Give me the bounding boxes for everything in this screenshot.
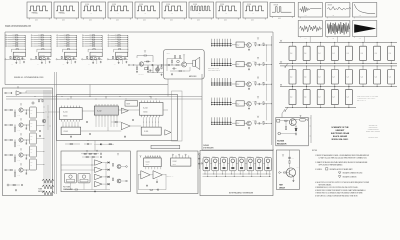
svg-text:C-4: C-4: [332, 97, 334, 99]
waveform scope box W3: [81, 2, 106, 18]
scope box W8 legs: [217, 18, 219, 20]
IC divider U301: [64, 52, 76, 57]
IC gate U120: [236, 42, 244, 47]
decoder IC104 to IC105 wire bundle: [143, 117, 145, 127]
IC U102 shaded: [94, 106, 118, 115]
svg-text:C-4: C-4: [318, 53, 320, 55]
fm resistor row R201-R203: [84, 153, 86, 154]
svg-text:C-4: C-4: [332, 53, 334, 55]
tone decoder ground 1: [14, 114, 16, 117]
divider unit 4 left terminal 4: [83, 41, 84, 43]
svg-text:4-9: 4-9: [252, 13, 254, 15]
transistor Q21 buffer: [156, 68, 160, 72]
scope box W1 legs: [28, 18, 30, 20]
decoder bus junction dots: [34, 95, 37, 98]
svg-text:C-NAT: C-NAT: [247, 155, 250, 158]
divider unit 4 ground 2: [100, 61, 102, 62]
note module 4 lead wires: [230, 171, 232, 174]
note module 5 chain wire: [245, 162, 247, 164]
amplifier ground: [171, 73, 173, 74]
tone decoder block rect 1: [30, 107, 37, 118]
tone decoder junction dots 4: [14, 154, 17, 157]
wire from amp box down: [167, 79, 169, 97]
key module row 2 col 6 bottom wire: [362, 84, 364, 86]
amplifier extra wire grid: [167, 58, 182, 60]
oscillator ground 1: [136, 71, 138, 72]
svg-text:VOICE: VOICE: [247, 4, 251, 6]
note module 5: [238, 158, 245, 171]
IC U105: [141, 127, 161, 135]
chimes unit 2 wire to gate: [232, 63, 236, 65]
svg-text:IC-101: IC-101: [63, 112, 68, 114]
note frequency synthesizer box: [200, 151, 273, 196]
svg-text:1. RESISTOR VALUES ARE IN OHM: 1. RESISTOR VALUES ARE IN OHMS - UNLESS …: [315, 154, 369, 157]
svg-text:4-10: 4-10: [62, 20, 65, 22]
IC U102 pins: [95, 104, 97, 106]
inter-stage diode D105: [100, 143, 102, 145]
svg-text:C-4: C-4: [347, 76, 349, 78]
svg-text:IC-104: IC-104: [143, 108, 148, 110]
svg-text:4-10: 4-10: [224, 20, 227, 22]
capacitor C30: [168, 64, 170, 66]
fm bottom resistor R208: [75, 189, 78, 190]
svg-text:4-8: 4-8: [225, 13, 227, 15]
capacitor C20: [151, 64, 153, 66]
svg-text:C-4: C-4: [347, 97, 349, 99]
tone decoder ground 2: [14, 129, 16, 132]
svg-text:MK50240: MK50240: [65, 54, 71, 56]
divider unit 3 left terminal 4: [58, 41, 59, 43]
wire from key grid to regulator: [282, 109, 285, 118]
svg-text:IC-2: IC-2: [237, 103, 240, 105]
capacitor C125: [258, 44, 260, 46]
note module 8 lower contact: [267, 167, 270, 169]
resistor R24: [161, 67, 162, 69]
svg-text:MK50240: MK50240: [91, 54, 97, 56]
divider unit 3 left terminal 5: [58, 43, 59, 45]
chimes unit 3 output wire: [264, 83, 272, 85]
svg-text:C-4: C-4: [361, 76, 363, 78]
chimes unit 1 inter-unit wire: [266, 45, 268, 62]
chimes unit 4 ground: [248, 107, 250, 108]
zener diode D301: [295, 128, 297, 131]
tone decoder zigzag coil 3: [42, 191, 54, 195]
amplifier junction dots: [171, 64, 174, 67]
fm diode D202: [108, 169, 110, 171]
svg-text:4-2: 4-2: [30, 165, 32, 167]
svg-text:Part of 595-1935: Part of 595-1935: [368, 136, 378, 139]
resistor R32: [179, 71, 182, 72]
tone decoder block rect 4: [30, 146, 37, 157]
note module 7 trimmer: [257, 159, 261, 163]
buffer stage input terminal: [5, 92, 7, 94]
svg-text:C-4: C-4: [375, 76, 377, 78]
svg-text:S50240: S50240: [63, 116, 68, 118]
tone decoder resistor R441: [14, 157, 15, 159]
chimes unit 4 output wire: [264, 103, 272, 105]
chimes unit 3 inter-unit wire: [266, 84, 268, 101]
key module row 1 col 4 bottom wire: [334, 60, 336, 63]
transistor Q30 amplifier: [182, 62, 187, 67]
svg-text:FLT: FLT: [30, 136, 32, 138]
tone decoder transistor Q540: [19, 168, 23, 172]
svg-text:FLT: FLT: [30, 123, 32, 125]
key module row 1 col 3 bottom wire: [320, 60, 322, 63]
scope box W7 legs: [190, 18, 192, 20]
chimes unit 5 wire to gate: [232, 122, 236, 124]
svg-text:4-10: 4-10: [116, 20, 119, 22]
rhythm supply Y: [140, 156, 142, 157]
chimes unit 2 output wire: [264, 64, 272, 66]
svg-text:C-4: C-4: [332, 76, 334, 78]
key module row 2 col 7 top wire: [376, 66, 378, 70]
note module 7 lower contact: [258, 167, 261, 169]
divider unit 1 junction dots: [13, 58, 16, 61]
note module 4 chain wire: [236, 162, 238, 164]
divider unit 1 left terminal 6: [7, 45, 8, 47]
key module row 2 col 8 top wire: [390, 66, 392, 70]
note module 6: [247, 158, 254, 171]
tone decoder input terminal 5: [5, 169, 7, 171]
regulator extra dots: [285, 119, 288, 122]
svg-text:VOICE: VOICE: [193, 4, 197, 6]
note module 7 lead wires: [257, 171, 259, 174]
key module row 3 col 2 top wire: [306, 86, 308, 89]
fm op-amp A204: [95, 181, 103, 187]
capacitor C31: [72, 57, 74, 59]
tone decoder input terminal 1: [5, 109, 7, 111]
key grid left switch arrow 2: [286, 107, 289, 110]
svg-text:Q-40: Q-40: [18, 115, 21, 117]
note module 6 chain wire: [254, 162, 256, 164]
divider unit 1 feedback wire: [11, 48, 25, 50]
svg-text:CHIMES: CHIMES: [203, 145, 209, 147]
svg-text:SEE FIG. 4-9: SEE FIG. 4-9: [167, 176, 174, 178]
key module row 1 col 2 bottom wire: [306, 60, 308, 63]
regulator output terminal: [306, 119, 307, 121]
key module row 1 col 5 top wire: [348, 42, 350, 46]
chimes unit 4 inter-unit wire: [266, 104, 268, 121]
note module 4 trimmer: [231, 159, 235, 163]
regulator resistor R301: [285, 120, 288, 121]
note item 3 triangle glyph 1: [338, 172, 341, 174]
tone decoder transistor Q340: [19, 138, 23, 142]
divider synthesizer enclosure box: [5, 32, 273, 85]
tone box junction dots: [43, 106, 46, 109]
key module row 3 col 3 bottom wire: [320, 105, 322, 108]
divider unit 4 left terminal 3: [83, 39, 84, 41]
divider unit 5 left terminal 5: [109, 43, 110, 45]
rhythm wire between amps: [150, 174, 153, 176]
key grid left supply 2: [280, 62, 282, 63]
fm junction dots: [91, 164, 94, 167]
svg-text:4-12: 4-12: [332, 15, 335, 17]
waveform box damped-burst: [298, 3, 322, 18]
svg-text:4 OHM: 4 OHM: [166, 53, 170, 55]
decoder supply symbols: [70, 97, 72, 98]
regulator input wire: [280, 120, 289, 122]
note module 8 trimmer: [266, 159, 270, 163]
fm right terminals: [126, 166, 128, 168]
buffer output wires: [22, 92, 31, 94]
divider unit 1 ground: [15, 62, 17, 63]
svg-text:4-15: 4-15: [332, 38, 335, 40]
chimes unit 1 ground: [248, 49, 250, 50]
scope box W3 legs: [82, 18, 84, 20]
svg-text:C-NAT: C-NAT: [265, 155, 268, 158]
svg-text:7. RESISTORS R 15 CONTRACTS L: 7. RESISTORS R 15 CONTRACTS LEAD FOR A S…: [315, 192, 363, 195]
divider unit 5 ground 2: [125, 61, 127, 62]
tone decoder wire 1: [23, 109, 29, 111]
tone decoder block output wires: [37, 112, 45, 114]
tone decoder wire 2: [23, 124, 29, 126]
transistor Q520: [247, 121, 252, 126]
divider unit 1 left terminal 2: [7, 36, 8, 38]
svg-text:IC-103: IC-103: [64, 131, 68, 133]
capacitor C21: [157, 66, 159, 68]
divider unit 3 junction dots: [64, 58, 67, 61]
tone decoder input terminal 3: [5, 139, 7, 141]
regulator supply: [300, 116, 302, 117]
wire from waveform box to grid bus: [337, 37, 339, 43]
divider unit 2 left terminal 2: [32, 36, 33, 38]
divider feedback resistor R20: [42, 48, 44, 51]
key module row 2 col 2 top wire: [306, 66, 308, 70]
svg-text:4-10: 4-10: [89, 20, 92, 22]
resistor R125: [255, 43, 256, 46]
divider unit 4 feedback wire: [88, 48, 102, 50]
transistor Q31: [64, 57, 67, 60]
note module 4 lower contact: [232, 167, 235, 169]
divider unit 5 left terminal 3: [109, 39, 110, 41]
note module 8: [265, 158, 272, 171]
transistor Q20 master oscillator: [139, 62, 143, 66]
resistor R326: [263, 82, 264, 85]
waveform scope box W8: [216, 2, 241, 18]
svg-text:DECODER: DECODER: [38, 191, 45, 193]
capacitor C22: [149, 70, 151, 72]
svg-text:VOICE: VOICE: [274, 5, 278, 7]
note module 1 lower contact: [205, 167, 208, 169]
key module row 3 col 4 bottom wire: [334, 105, 336, 108]
tone decoder transistor Q440: [19, 153, 23, 157]
master oscillator wire: [128, 64, 168, 66]
waveform scope box W10: [270, 3, 295, 17]
svg-text:Copyright 1976: Copyright 1976: [369, 124, 378, 127]
divider unit 5 junction dots: [116, 58, 119, 61]
chimes unit 5 supply: [257, 117, 259, 118]
IC divider U501: [116, 52, 128, 57]
divider feedback resistor R10: [16, 48, 18, 51]
chimes unit 2 ground: [248, 68, 250, 69]
note module 2 chain wire: [219, 162, 221, 164]
tone decoder transistor Q240: [19, 123, 23, 127]
divider unit 4 left terminal 6: [83, 45, 84, 47]
divider unit 2 ground: [41, 62, 43, 63]
divider unit 4 junction dots: [90, 58, 93, 61]
regulator bottom terminal: [278, 132, 281, 135]
svg-text:C-NAT: C-NAT: [203, 155, 206, 158]
svg-text:ELECTRONIC ORGAN: ELECTRONIC ORGAN: [331, 132, 350, 135]
key module row 1 col 6 bottom wire: [362, 60, 364, 63]
divider unit 5 right bus wire: [127, 35, 129, 52]
tone decoder cap C240: [25, 128, 27, 130]
key module row 2 col 3 top wire: [320, 66, 322, 70]
IC U101: [60, 108, 83, 120]
divider unit 1 left terminal 5: [7, 43, 8, 45]
svg-text:C-4: C-4: [318, 76, 320, 78]
svg-text:R-6: R-6: [88, 64, 90, 66]
fm supply 1: [86, 151, 88, 152]
key switch module row 3 col 2: [303, 90, 310, 105]
note module 3 trimmer: [222, 159, 226, 163]
waveform scope box W7: [189, 2, 214, 18]
key switch module row 1 col 3: [317, 46, 324, 60]
resistor R21: [36, 56, 37, 58]
waveform scope box W1: [27, 2, 52, 18]
regulator ground: [295, 131, 297, 133]
svg-text:C-4: C-4: [304, 97, 306, 99]
fm diode D203: [108, 176, 110, 178]
note module 4: [229, 158, 236, 171]
decoder bus wire 2: [6, 98, 202, 100]
test circuit supply: [282, 155, 284, 156]
note module 3 chain wire: [227, 162, 229, 164]
note module 2 trimmer: [213, 159, 217, 163]
rhythm ground: [146, 185, 148, 186]
capacitor C225: [258, 64, 260, 66]
svg-text:4.000 MHZ: 4.000 MHZ: [138, 74, 144, 76]
inter-stage resistor: [70, 144, 73, 145]
resistor R21: [136, 67, 137, 70]
svg-text:4-5: 4-5: [144, 13, 146, 15]
key switch module row 2 col 1: [289, 70, 296, 85]
svg-text:FLT: FLT: [30, 149, 32, 151]
note synth left chain wire: [202, 162, 205, 164]
rhythm loop resistor R210: [150, 189, 153, 190]
decoder mid wires: [82, 110, 94, 112]
note module 8 lead wires: [266, 171, 268, 174]
amplifier cap C31: [173, 68, 175, 70]
note module 3: [221, 158, 228, 171]
resistor R23: [144, 55, 147, 56]
svg-text:C-4: C-4: [290, 76, 292, 78]
svg-text:4-10: 4-10: [278, 18, 281, 20]
chimes unit 1 wire to gate: [232, 44, 236, 46]
wire from waveform box to grid bus: [364, 37, 366, 43]
resistor R20: [147, 61, 149, 62]
test circuit emitter wire: [292, 176, 294, 179]
svg-text:INDICATES COMMON.: INDICATES COMMON.: [343, 175, 358, 178]
divider unit 4 output wire: [83, 58, 103, 60]
wire right of regulator: [310, 115, 312, 143]
resistor R11: [10, 56, 11, 58]
fm resistor row R204-R205: [86, 157, 88, 158]
divider unit 4 right bus wire: [101, 35, 103, 52]
tone decoder transistor Q140: [19, 108, 23, 112]
fm transistor Q201: [117, 165, 121, 169]
svg-text:www.servicemanuals.net: www.servicemanuals.net: [5, 25, 31, 28]
IC divider U101: [13, 52, 25, 57]
note module 2 lead wires: [213, 171, 215, 174]
tone decoder resistor R341: [14, 142, 15, 144]
key module row 1 col 3 top wire: [320, 42, 322, 46]
divider unit 2 left terminal 1: [32, 34, 33, 36]
svg-text:IC-2: IC-2: [237, 123, 240, 125]
capacitor C21: [47, 57, 49, 59]
fm resistor R206: [112, 164, 113, 167]
divider unit 2 feedback wire: [37, 48, 51, 50]
chimes right bus wire: [271, 36, 273, 145]
key module row 2 col 5 bottom wire: [348, 84, 350, 86]
divider unit 2 junction dots: [39, 58, 42, 61]
divider unit 5 ground: [118, 62, 120, 63]
svg-text:CIRCUIT: CIRCUIT: [279, 187, 285, 189]
key grid left supply 1: [280, 41, 282, 42]
IC gate U520: [236, 120, 244, 125]
svg-text:INDICATES CHASSIS GROUND.: INDICATES CHASSIS GROUND.: [343, 172, 364, 175]
svg-text:R-6: R-6: [37, 64, 39, 66]
svg-text:IC-2: IC-2: [237, 64, 240, 66]
tone decoder resistor R141: [14, 112, 15, 114]
resistor R226: [263, 63, 264, 66]
svg-text:R-6: R-6: [12, 64, 14, 66]
rhythm op-amp A203: [141, 171, 150, 179]
resistor R41: [87, 56, 88, 58]
trimmer wire: [152, 65, 154, 72]
svg-text:4. SELECTORS 1-13 CONTROL OUT: 4. SELECTORS 1-13 CONTROL OUTPUT OF THE …: [315, 181, 369, 184]
scope box W6 legs: [163, 18, 165, 20]
capacitor C51: [123, 57, 125, 59]
tone decoder junction dots 1: [14, 109, 17, 112]
resistor R31: [176, 65, 178, 66]
divider unit 2 right bus wire: [50, 35, 52, 52]
vertical bus wire pair: [54, 72, 56, 194]
divider unit 4 down wire: [92, 59, 94, 61]
tone decoder resistor R541: [14, 172, 15, 174]
chimes unit 1 output wire: [264, 44, 272, 46]
key grid mid bus wire 1: [279, 63, 397, 65]
buffer stage cap: [10, 92, 12, 94]
transistor Q22: [43, 57, 46, 60]
tone decoder resistor R140: [10, 110, 12, 111]
chimes unit 2 diode matrix: [211, 62, 232, 64]
svg-text:MK50240: MK50240: [40, 54, 46, 56]
divider unit 5 left terminal 1: [109, 34, 110, 36]
IC U104: [139, 103, 163, 116]
amplifier input wire: [165, 64, 180, 66]
note synth bus wire 2: [203, 176, 272, 178]
tone decoder resistor R540: [10, 170, 12, 171]
svg-text:C-4: C-4: [290, 97, 292, 99]
svg-text:NOISE: NOISE: [328, 4, 332, 6]
svg-text:4-2: 4-2: [63, 13, 65, 15]
fm module 1: [65, 173, 77, 183]
svg-text:S2567: S2567: [173, 164, 177, 166]
key module row 2 col 6 top wire: [362, 66, 364, 70]
tone decoder supply 2: [20, 119, 22, 120]
fm transistor Q202: [117, 179, 121, 183]
rhythm loop cap C210: [157, 189, 159, 191]
svg-text:C-NAT: C-NAT: [256, 155, 259, 158]
scope box W4 legs: [109, 18, 111, 20]
divider unit 4 ground: [92, 62, 94, 63]
oscillator junction dots 2: [152, 71, 155, 74]
tone decoder ground 4: [14, 159, 16, 162]
key switch module row 1 col 4: [331, 46, 338, 60]
resistor R426: [263, 102, 264, 105]
chimes unit 3 diode matrix: [211, 82, 232, 84]
